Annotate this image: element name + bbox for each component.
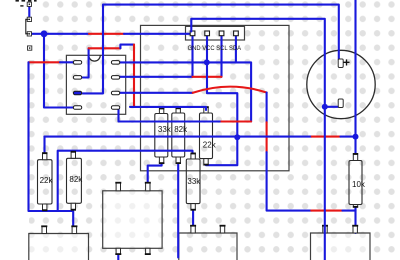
- svg-text:82k: 82k: [69, 175, 83, 184]
- svg-text:GND VCC SCL SDA: GND VCC SCL SDA: [188, 46, 242, 52]
- svg-text:82k: 82k: [174, 125, 188, 134]
- svg-text:22k: 22k: [40, 176, 54, 185]
- svg-text:22k: 22k: [203, 141, 217, 150]
- svg-text:33k: 33k: [187, 177, 201, 186]
- svg-text:10k: 10k: [352, 180, 366, 189]
- svg-text:33k: 33k: [158, 125, 172, 134]
- svg-text:+: +: [343, 56, 350, 70]
